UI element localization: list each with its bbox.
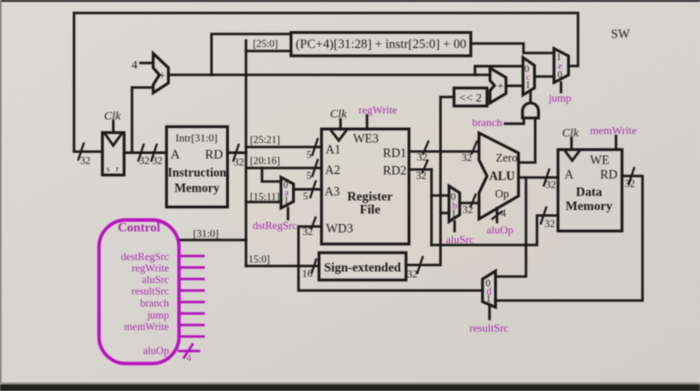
svg-text:[15:11]: [15:11] xyxy=(250,192,280,203)
svg-text:dstRegSrc: dstRegSrc xyxy=(253,220,298,232)
svg-text:A: A xyxy=(565,168,574,182)
svg-text:4: 4 xyxy=(187,354,192,364)
svg-text:memWrite: memWrite xyxy=(590,125,637,137)
svg-text:RD1: RD1 xyxy=(383,146,407,160)
wire: instr[15:11] to dstRegSrc mux input 1 xyxy=(246,192,281,203)
wire: result back to register file WD3 (32-bit) xyxy=(299,217,483,291)
wire: branch target to branch mux input 1 xyxy=(506,85,523,88)
wire: ALU result down to resultSrc mux input 0 xyxy=(496,178,527,277)
block: Register File xyxy=(322,129,410,244)
wire: instr[20:16] branch down to dstRegSrc mux input 0 xyxy=(262,168,281,182)
svg-text:WE: WE xyxy=(590,153,610,167)
svg-text:32: 32 xyxy=(625,179,636,190)
svg-text:[31:0]: [31:0] xyxy=(193,229,219,240)
svg-text:Memory: Memory xyxy=(566,199,613,213)
wire: Data Memory RD to resultSrc mux input 1 (32-bit) xyxy=(496,167,643,301)
svg-text:Register: Register xyxy=(347,190,393,204)
alu ALU xyxy=(479,133,519,219)
svg-text:32: 32 xyxy=(407,270,418,281)
wire: control aluOp stub (4-bit) xyxy=(179,345,199,365)
svg-text:s: s xyxy=(107,165,110,174)
svg-text:Intr[31:0]: Intr[31:0] xyxy=(176,133,218,145)
block: Sign-extended xyxy=(319,253,406,280)
svg-text:4: 4 xyxy=(501,209,506,220)
svg-text:resultSrc: resultSrc xyxy=(469,323,508,335)
label Clk (Register File) xyxy=(330,107,347,130)
svg-text:Sign-extended: Sign-extended xyxy=(324,261,401,275)
svg-text:aluOp: aluOp xyxy=(487,225,514,237)
svg-text:0: 0 xyxy=(558,71,563,81)
svg-text:[20:16]: [20:16] xyxy=(250,156,280,167)
mux jump (1/e/0) xyxy=(554,49,569,93)
svg-text:32: 32 xyxy=(303,227,314,238)
mux branch PCSrc (0/c/1) xyxy=(523,58,535,96)
wire: control output stubs xyxy=(179,256,204,337)
svg-text:5: 5 xyxy=(307,171,312,182)
signal regWrite xyxy=(359,105,398,130)
signal aluOp (4-bit select) xyxy=(487,208,514,237)
wire: instr[20:16] to register file A2 (5-bit) xyxy=(246,156,322,182)
block: jump target concat (PC+4)[31:28] + instr[25:0] + 00 xyxy=(291,33,471,56)
wire: RD2 to aluSrc mux input 0 xyxy=(432,194,450,197)
svg-text:Control: Control xyxy=(118,221,161,235)
svg-text:A: A xyxy=(171,147,181,162)
svg-text:WE3: WE3 xyxy=(353,132,379,146)
constant 4 input xyxy=(132,58,154,72)
svg-text:32: 32 xyxy=(545,219,556,230)
svg-text:memWrite: memWrite xyxy=(124,322,169,333)
svg-text:jump: jump xyxy=(146,311,169,322)
svg-text:+: + xyxy=(498,81,504,93)
label Clk (Data Memory) xyxy=(562,126,579,150)
svg-text:A3: A3 xyxy=(325,185,340,199)
signal branch xyxy=(472,117,524,129)
svg-text:5: 5 xyxy=(303,192,308,203)
wire: RD2 down (32-bit) xyxy=(409,160,432,246)
svg-text:aluSrc: aluSrc xyxy=(142,275,169,286)
svg-text:<< 2: << 2 xyxy=(459,91,482,105)
wire: jump target to jump mux input 1 xyxy=(471,44,554,54)
svg-text:4: 4 xyxy=(132,58,138,72)
label Clk (PC) xyxy=(104,109,121,133)
wire: write data to Data Memory WD (32-bit) xyxy=(432,207,559,246)
svg-text:32: 32 xyxy=(80,156,91,167)
svg-text:Instruction: Instruction xyxy=(168,166,227,180)
svg-text:branch: branch xyxy=(472,117,502,129)
svg-text:RD2: RD2 xyxy=(383,164,407,178)
svg-text:ALU: ALU xyxy=(489,169,515,183)
svg-text:+: + xyxy=(159,68,166,82)
svg-text:32: 32 xyxy=(463,205,474,216)
svg-text:WD3: WD3 xyxy=(326,222,353,236)
mux resultSrc (0/d/1) xyxy=(483,271,496,319)
adder PC+4 xyxy=(153,53,168,93)
wire: PC+4 to branch mux input 0 xyxy=(475,66,523,75)
wire: PC tap up to +4 adder input xyxy=(132,88,153,153)
wire: PC to Instruction Memory A (32-bit) xyxy=(124,144,166,167)
svg-text:regWrite: regWrite xyxy=(132,264,170,275)
svg-text:A2: A2 xyxy=(325,163,340,177)
signal memWrite xyxy=(590,125,637,150)
svg-text:jump: jump xyxy=(548,93,572,105)
svg-text:SW: SW xyxy=(611,27,630,41)
svg-text:File: File xyxy=(360,203,381,217)
svg-text:1: 1 xyxy=(451,209,456,220)
svg-text:Clk: Clk xyxy=(330,107,347,121)
svg-text:32: 32 xyxy=(462,153,473,164)
svg-text:32: 32 xyxy=(139,156,150,167)
svg-text:32: 32 xyxy=(152,156,163,167)
wire: instr[15:0] to Sign-extended (16-bit) xyxy=(245,255,319,281)
svg-text:A1: A1 xyxy=(326,143,341,157)
svg-text:32: 32 xyxy=(546,180,557,191)
svg-text:resultSrc: resultSrc xyxy=(131,287,169,298)
svg-text:aluOp: aluOp xyxy=(143,346,169,357)
wire: SrcB from aluSrc mux to ALU (32-bit) xyxy=(460,194,479,217)
svg-text:1: 1 xyxy=(526,81,531,91)
gate AND (branch and zero) xyxy=(523,91,539,118)
svg-text:destRegSrc: destRegSrc xyxy=(121,252,170,263)
wire: instruction bus vertical (instr word) xyxy=(245,41,248,267)
svg-text:aluSrc: aluSrc xyxy=(446,234,474,246)
wire: branch mux output to jump mux input 0 xyxy=(535,75,555,78)
svg-text:Zero: Zero xyxy=(496,153,518,165)
svg-text:Data: Data xyxy=(576,185,603,199)
svg-text:[15:0]: [15:0] xyxy=(245,255,270,266)
mux aluSrc (0/b/1) xyxy=(449,186,460,231)
wire: instr[25:21] to register file A1 (5-bit) xyxy=(246,135,322,161)
wire: instr[31:0] to Control xyxy=(179,229,246,240)
svg-text:32: 32 xyxy=(416,171,427,182)
wire: PC' feedback loop from jump mux output to PC input xyxy=(74,13,578,167)
block: Data Memory xyxy=(558,150,622,231)
svg-text:RD: RD xyxy=(600,168,617,182)
svg-text:32: 32 xyxy=(234,158,245,169)
svg-text:RD: RD xyxy=(205,147,223,162)
svg-text:Op: Op xyxy=(495,189,509,201)
svg-text:Memory: Memory xyxy=(174,181,220,195)
register PC xyxy=(102,133,124,175)
block: shift left 2 xyxy=(454,88,487,106)
mux dstRegSrc (0/a/1) xyxy=(281,177,294,219)
wire: RD1 to ALU SrcA (32-bit) xyxy=(409,141,479,165)
wire: ALU result to Data Memory A (32-bit) xyxy=(519,169,559,192)
block: Instruction Memory xyxy=(167,127,228,207)
svg-text:1: 1 xyxy=(486,294,491,305)
adder branch target xyxy=(490,68,506,103)
wire: dstRegSrc mux output to A3 (5-bit) xyxy=(294,180,322,202)
svg-text:[25:21]: [25:21] xyxy=(250,135,280,146)
wire: PC+4 up to jump concat box xyxy=(212,34,292,75)
wire: instr[25:0] tap to concat box xyxy=(246,39,291,51)
wire: ALU Zero to AND gate xyxy=(519,118,536,163)
svg-text:r: r xyxy=(116,165,119,174)
svg-text:(PC+4)[31:28] + instr[25:0] +: (PC+4)[31:28] + instr[25:0] + 00 xyxy=(296,37,467,51)
wire: Instruction Memory RD output (32-bit) xyxy=(228,144,247,169)
wire: PC+4 from adder to branch adder xyxy=(168,74,490,77)
svg-text:16: 16 xyxy=(302,269,313,280)
svg-text:5: 5 xyxy=(307,150,312,161)
svg-text:branch: branch xyxy=(140,299,170,310)
svg-text:1: 1 xyxy=(284,195,289,205)
wire: SignImm up to shift-left-2 and aluSrc mux input 1 (32-bit) xyxy=(406,97,454,281)
block: Control unit xyxy=(99,220,179,364)
svg-text:[25:0]: [25:0] xyxy=(253,39,278,50)
svg-text:regWrite: regWrite xyxy=(359,105,398,117)
